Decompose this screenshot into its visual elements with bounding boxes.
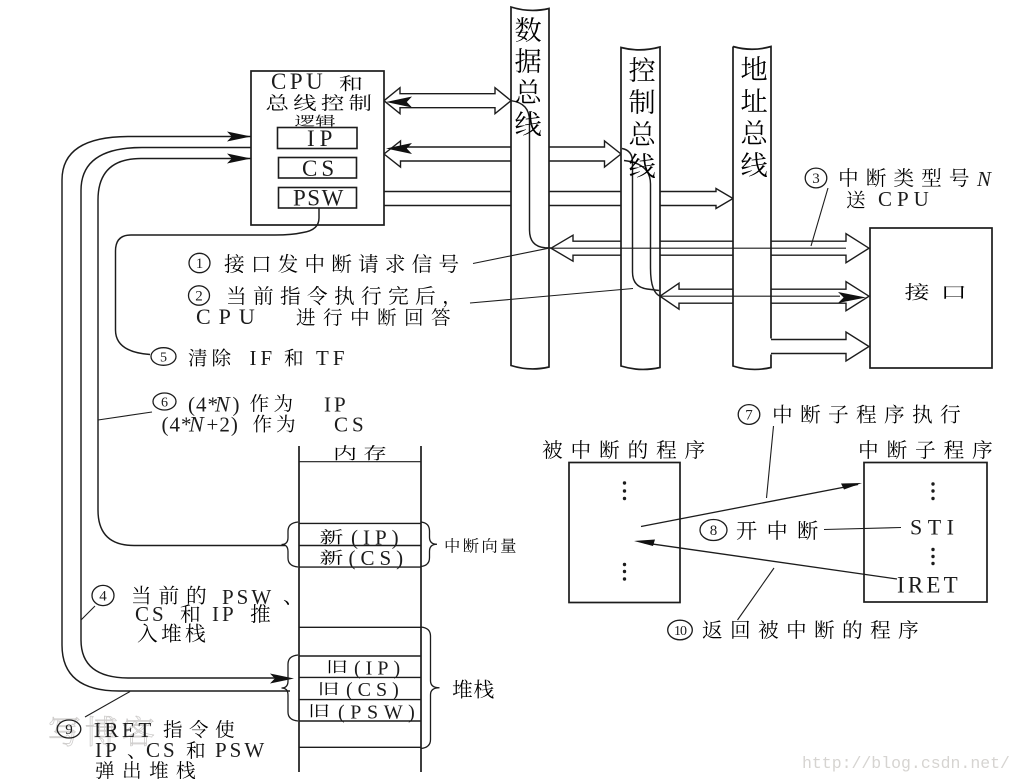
- leader step4: [81, 606, 95, 620]
- wire: signal line inside row A shaft: [551, 247, 846, 249]
- label step8: [700, 520, 727, 541]
- svg-text:3: 3: [812, 171, 820, 187]
- label step9: [57, 720, 81, 738]
- svg-text:(IP): (IP): [354, 658, 405, 680]
- leader step1: [473, 248, 548, 263]
- svg-text:IP: IP: [307, 126, 337, 151]
- svg-text:5: 5: [160, 350, 167, 365]
- black arrow inside row2 pointing left: [386, 143, 412, 154]
- leader step9: [85, 692, 130, 718]
- label: 中断向量: [446, 538, 459, 553]
- label step10: [668, 620, 693, 640]
- svg-text:(4*: (4*: [162, 413, 193, 437]
- label: address bus: [741, 56, 766, 80]
- label: 接口: [905, 283, 928, 300]
- svg-text:http://blog.csdn.net/: http://blog.csdn.net/: [802, 754, 1010, 773]
- wire P6: vector row to CPU: [98, 159, 285, 546]
- dots in interrupted program box: [623, 481, 626, 484]
- arrow step7: into subroutine: [641, 485, 858, 527]
- data bus: [511, 7, 549, 369]
- svg-text:STI: STI: [910, 515, 960, 540]
- black arrow inside row1 pointing left: [386, 97, 412, 108]
- svg-text:CS: CS: [334, 413, 368, 437]
- svg-text:IRET: IRET: [897, 573, 961, 598]
- svg-text:CPU: CPU: [196, 304, 263, 329]
- wire: signal line inside row B shaft: [660, 295, 840, 297]
- label step6: [153, 393, 176, 410]
- label step2: [189, 286, 210, 305]
- label: 逻辑: [295, 115, 314, 127]
- control bus: [621, 47, 660, 369]
- svg-text:CPU: CPU: [878, 187, 934, 211]
- label step5: [151, 348, 176, 366]
- svg-text:IP: IP: [212, 602, 237, 626]
- watermark: faint blog glyphs: [50, 717, 80, 746]
- label: 旧 (IP): [329, 660, 347, 673]
- svg-text:(PSW): (PSW): [338, 702, 420, 724]
- leader step8: [824, 528, 901, 530]
- svg-text:(CS): (CS): [346, 679, 404, 701]
- arrow step10: back to interrupted program: [644, 543, 897, 579]
- svg-text:N: N: [976, 167, 992, 191]
- svg-text:PSW: PSW: [293, 186, 345, 211]
- svg-text:+2): +2): [207, 413, 239, 437]
- wire: CPU-to-address-bus shaft lines (hidden under buses): [384, 189, 733, 209]
- label: 堆栈: [453, 679, 472, 698]
- label: 新 (CS): [320, 549, 342, 564]
- label: 旧 (PSW): [311, 704, 329, 717]
- label: 总线控制: [267, 94, 288, 111]
- memory top line: [299, 461, 421, 463]
- leader step2: [470, 289, 633, 304]
- memory vector rows: [299, 522, 421, 524]
- CPU and bus control logic box: [251, 71, 384, 225]
- svg-text:CPU: CPU: [271, 69, 326, 94]
- label: 内存: [336, 445, 356, 460]
- interface box: [870, 228, 992, 368]
- register PSW box: [279, 188, 357, 209]
- black arrow inside row B pointing right: [838, 292, 866, 303]
- svg-text:8: 8: [710, 523, 718, 539]
- address bus: [733, 47, 771, 370]
- label: 被中断的程序: [543, 440, 563, 459]
- brace left of vector rows: [282, 522, 299, 567]
- label step7: [738, 405, 760, 425]
- svg-text:N: N: [188, 412, 205, 437]
- black arrowhead into stack (P4): [270, 674, 294, 684]
- label: data bus: [515, 17, 541, 42]
- label step4: [92, 585, 114, 605]
- svg-text:CS: CS: [135, 602, 167, 626]
- svg-text:9: 9: [65, 722, 73, 738]
- node: signal path inside control bus (left wall): [622, 149, 659, 291]
- svg-text:PSW: PSW: [215, 738, 267, 762]
- leader step6: [98, 412, 152, 420]
- svg-text:TF: TF: [316, 346, 349, 370]
- brace left of stack rows: [282, 655, 299, 721]
- memory column right line: [420, 446, 422, 772]
- dots in subroutine box: [931, 482, 934, 485]
- wire: step5 curl from PSW: [116, 208, 320, 355]
- node: signal path inside control bus (right wall): [624, 161, 661, 297]
- wire: control-bus-to-interface arrow row B: [660, 282, 869, 311]
- svg-text:2: 2: [195, 289, 203, 305]
- interrupted program box: [569, 463, 680, 603]
- leader step7: [767, 426, 774, 498]
- brace right of vector rows: [421, 522, 437, 567]
- memory stack rows: [299, 626, 421, 628]
- wire P9: stack to CPU (IRET pop path): [62, 137, 290, 692]
- svg-text:IF: IF: [250, 346, 277, 370]
- register CS box: [279, 158, 357, 179]
- label step3: [805, 168, 827, 188]
- label: 旧 (CS): [320, 682, 338, 695]
- svg-text:10: 10: [674, 624, 687, 639]
- memory column left line: [298, 446, 300, 772]
- label: 新 (IP): [320, 529, 342, 544]
- label step1: [189, 253, 210, 272]
- wire: CPU-to-control-bus double arrow row 2: [384, 141, 621, 167]
- brace right of stack rows: [421, 627, 440, 749]
- svg-text:CS: CS: [146, 738, 178, 762]
- label: control bus: [629, 57, 655, 82]
- leader step3: [811, 188, 828, 246]
- svg-text:6: 6: [161, 395, 168, 410]
- label: 中断子程序: [860, 440, 877, 459]
- svg-text:(CS): (CS): [349, 546, 409, 570]
- wire: CPU-to-data-bus double arrow row 1: [384, 88, 511, 114]
- wire: interface-to-databus long arrow row A: [551, 234, 869, 263]
- svg-text:4: 4: [99, 589, 107, 605]
- svg-text:7: 7: [745, 408, 753, 424]
- svg-text:1: 1: [196, 256, 204, 272]
- svg-text:IP: IP: [95, 738, 120, 762]
- black arrowhead into CPU (P6): [227, 154, 251, 164]
- svg-text:CS: CS: [302, 156, 338, 181]
- black arrowhead into CPU (P9): [227, 132, 251, 142]
- register IP box: [278, 128, 358, 149]
- interrupt subroutine box: [864, 463, 987, 603]
- node: signal path inside data bus: [511, 101, 551, 248]
- leader step10: [738, 568, 775, 620]
- wire: address-bus-to-interface arrow row C: [771, 332, 869, 361]
- wire P4: CPU to stack (push path): [81, 148, 276, 679]
